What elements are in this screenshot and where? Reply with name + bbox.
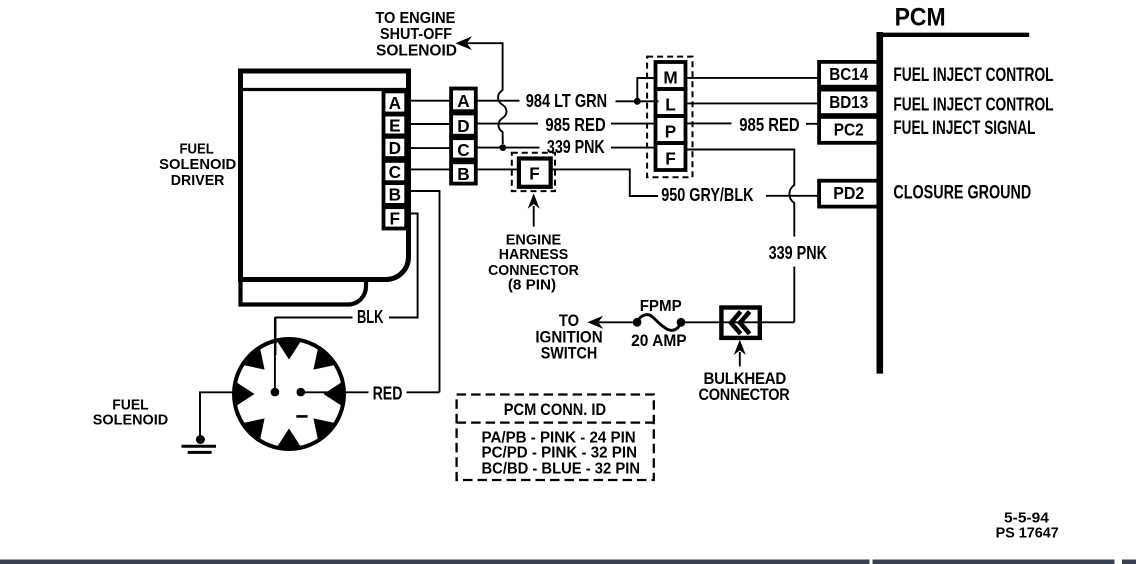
bulkhead connector MLPF dashed border <box>647 57 692 178</box>
svg-text:D: D <box>457 116 469 136</box>
svg-text:F: F <box>390 208 401 228</box>
arrow engine harness connector <box>528 194 540 227</box>
wire fuse to ignition switch <box>599 321 633 323</box>
svg-text:B: B <box>389 184 401 204</box>
connector pin D <box>451 114 476 136</box>
svg-text:BD13: BD13 <box>829 92 868 112</box>
svg-text:SHUT-OFF: SHUT-OFF <box>380 26 452 43</box>
svg-text:PD2: PD2 <box>833 183 864 203</box>
svg-text:C: C <box>457 140 469 160</box>
engine harness connector F box <box>519 159 551 187</box>
PCM top line <box>876 33 1029 37</box>
svg-text:PCM CONN. ID: PCM CONN. ID <box>504 401 606 419</box>
wire M to BC14 <box>686 77 820 79</box>
svg-text:PCM: PCM <box>895 4 946 31</box>
svg-text:FUEL: FUEL <box>112 397 148 413</box>
PCM pin PC2 <box>819 117 878 143</box>
connector pin A <box>451 89 476 112</box>
svg-text:B: B <box>457 164 469 184</box>
svg-text:PS 17647: PS 17647 <box>996 526 1059 542</box>
svg-text:L: L <box>665 95 676 115</box>
wire 339 PNK <box>476 136 656 157</box>
wire to engine shut-off solenoid with crossover squiggle <box>467 43 507 144</box>
svg-text:FUEL INJECT CONTROL: FUEL INJECT CONTROL <box>893 94 1053 115</box>
driver pin E <box>384 115 407 136</box>
svg-text:950 GRY/BLK: 950 GRY/BLK <box>661 184 754 205</box>
label ENGINE HARNESS CONNECTOR (8 PIN) <box>488 231 579 293</box>
wire left terminal up <box>274 318 276 393</box>
PCM pin BC14 <box>819 62 878 87</box>
wire right terminal to RED <box>301 391 369 393</box>
svg-text:CLOSURE GROUND: CLOSURE GROUND <box>893 182 1031 204</box>
PCM vertical line <box>876 32 883 374</box>
arrow bulkhead connector <box>734 340 746 367</box>
svg-text:FUEL INJECT CONTROL: FUEL INJECT CONTROL <box>893 64 1053 86</box>
driver pin F <box>384 207 407 228</box>
wire bulkhead to fuse <box>685 321 794 323</box>
wire driver A to connector A <box>408 100 451 102</box>
svg-text:(8 PIN): (8 PIN) <box>508 277 556 294</box>
fuel solenoid driver U1 outline <box>241 71 409 305</box>
driver pin C <box>384 161 407 182</box>
svg-text:F: F <box>529 163 540 183</box>
svg-text:BC/BD - BLUE - 32 PIN: BC/BD - BLUE - 32 PIN <box>482 461 641 478</box>
PCM CONN. ID legend box <box>457 395 654 481</box>
svg-text:FUEL: FUEL <box>179 141 213 157</box>
bulkhead connector box <box>721 308 759 338</box>
wire driver E to connector D <box>408 123 451 125</box>
PCM pin PD2 <box>819 181 878 207</box>
svg-text:A: A <box>457 91 469 111</box>
wire driver B down to RED <box>407 191 440 392</box>
svg-text:PC/PD - PINK - 32 PIN: PC/PD - PINK - 32 PIN <box>482 445 638 462</box>
ground node dot <box>196 435 205 444</box>
svg-text:RED: RED <box>373 382 403 403</box>
solenoid teeth <box>233 338 346 451</box>
svg-text:F: F <box>665 149 676 169</box>
wire 985 RED <box>476 114 656 135</box>
svg-text:5-5-94: 5-5-94 <box>1004 511 1050 527</box>
connector pin P <box>656 116 686 143</box>
arrow to ignition switch <box>587 316 603 329</box>
svg-text:FPMP: FPMP <box>640 298 682 315</box>
fuse FPMP 20A <box>633 315 686 331</box>
wire solenoid to ground <box>200 392 234 437</box>
svg-text:339 PNK: 339 PNK <box>769 242 828 263</box>
bulkhead connector chevrons <box>731 312 750 334</box>
svg-text:984 LT GRN: 984 LT GRN <box>526 90 607 111</box>
svg-text:HARNESS: HARNESS <box>499 246 569 263</box>
wire L to BD13 <box>686 102 820 104</box>
svg-text:TO ENGINE: TO ENGINE <box>375 10 455 27</box>
connector pin L <box>656 89 686 116</box>
connector pin F <box>656 143 686 170</box>
svg-text:DRIVER: DRIVER <box>171 173 225 189</box>
svg-text:985 RED: 985 RED <box>739 114 799 135</box>
wire driver C to connector B <box>408 168 451 170</box>
bottom border bars <box>0 560 1136 564</box>
wire F down to bulkhead with crossover hop and 339 PNK label <box>686 150 828 323</box>
svg-text:SOLENOID: SOLENOID <box>159 157 236 173</box>
svg-text:P: P <box>665 122 676 142</box>
wire RED to corner up <box>407 391 440 393</box>
svg-text:20 AMP: 20 AMP <box>631 331 687 350</box>
svg-text:C: C <box>389 162 401 182</box>
minus sign <box>296 415 307 418</box>
wire driver D to connector C <box>408 147 451 149</box>
connector pin B <box>451 162 476 184</box>
svg-text:BC14: BC14 <box>829 64 868 84</box>
ground symbol <box>182 446 217 452</box>
solenoid terminal dots <box>271 388 280 397</box>
PCM pin BD13 <box>819 90 878 116</box>
svg-text:SOLENOID: SOLENOID <box>376 43 457 60</box>
arrow to shut-off solenoid <box>456 36 473 50</box>
wire BLK to solenoid <box>276 318 353 356</box>
label TO IGNITION SWITCH <box>535 311 602 363</box>
connector pin C <box>451 138 476 160</box>
svg-text:CONNECTOR: CONNECTOR <box>699 385 790 404</box>
wire branch to M <box>637 78 656 101</box>
svg-text:PC2: PC2 <box>834 119 864 139</box>
svg-text:BLK: BLK <box>357 306 384 327</box>
svg-text:A: A <box>389 93 401 113</box>
svg-text:E: E <box>389 115 400 135</box>
wire 950 GRY/BLK from F connector <box>551 169 819 204</box>
wire P to PC2 with 985 RED label <box>686 114 820 135</box>
label BULKHEAD CONNECTOR <box>699 369 790 404</box>
svg-text:985 RED: 985 RED <box>545 114 605 135</box>
svg-text:M: M <box>663 68 677 88</box>
svg-text:SOLENOID: SOLENOID <box>93 413 168 429</box>
label FUEL SOLENOID <box>93 397 168 428</box>
label TO ENGINE SHUT-OFF SOLENOID <box>375 10 457 60</box>
connector pin M <box>656 62 686 89</box>
driver pin B <box>384 183 407 205</box>
wire driver F down to BLK <box>389 214 418 318</box>
driver pin A <box>384 91 407 113</box>
driver pin D <box>384 137 407 158</box>
label FUEL SOLENOID DRIVER <box>159 141 236 189</box>
wire connector B through engine harness connector <box>476 168 521 170</box>
svg-text:FUEL INJECT SIGNAL: FUEL INJECT SIGNAL <box>893 117 1035 139</box>
wire 984 LT GRN <box>476 90 659 111</box>
node junction 984 <box>634 98 641 105</box>
node junction squiggle on 339 <box>499 144 506 151</box>
fuel solenoid L1 circle <box>234 339 344 449</box>
svg-text:D: D <box>389 138 401 158</box>
engine harness connector F dashed border <box>512 153 555 191</box>
svg-text:SWITCH: SWITCH <box>541 344 598 363</box>
